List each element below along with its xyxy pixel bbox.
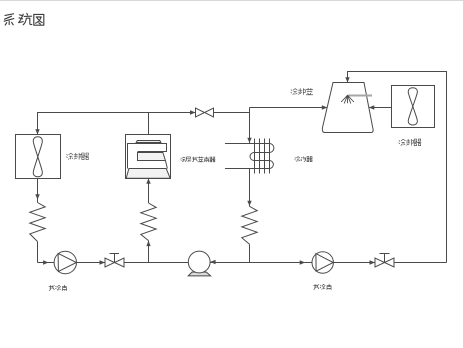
cooling tower: [322, 83, 373, 133]
label-cooler-right: [399, 139, 422, 146]
evaporator right fold diagonal: [165, 161, 167, 169]
valve V2 (bottom left, with stem): [105, 254, 124, 268]
arrow into condenser top (down): [247, 138, 251, 143]
pump P1 (circle + right triangle): [54, 251, 76, 273]
wire: left expansion coil to bottom pipe: [37, 242, 39, 263]
title 系统图 (hand drawn strokes): [4, 13, 44, 25]
arrow into pump P3 (right): [300, 260, 306, 264]
label-pump-left: [49, 285, 67, 291]
condenser crossing tubes: [255, 139, 270, 174]
valve V3 (bottom right, with stem): [375, 254, 394, 268]
wire: middle expansion coil to bottom pipe: [148, 241, 150, 263]
arrow above left expansion coil: [35, 194, 39, 199]
wire: condenser feed vertical x=249.5: [249, 108, 251, 144]
arrow into valve V3 (right): [370, 260, 376, 264]
evaporator (plate coil box): [126, 135, 171, 179]
wire: top header pipe y=112.5 from left cooler drop to condenser riser: [38, 113, 250, 135]
cooler (left fan box): [16, 135, 61, 179]
arrow at pump P2 right (left): [210, 260, 216, 264]
wire: tower top feed and right return riser: [348, 72, 447, 263]
tower spray header (grey): [348, 95, 373, 97]
expansion coil E3 (condenser drain zigzag): [242, 206, 257, 244]
label-condenser: [295, 157, 313, 162]
pump P2 (circle with base): [188, 251, 210, 276]
decorative top border: [0, 0, 463, 2]
arrow into tower left wall (right): [322, 105, 328, 109]
wire: evaporator bottom leg: [148, 179, 150, 204]
wire: left cooler down leg to expansion coil: [37, 179, 39, 203]
arrow into valve V2: [100, 260, 106, 264]
wire: header to cooling tower y=107.5: [250, 107, 328, 109]
arrow into pump P1: [43, 260, 49, 264]
condenser serpentine coil: [225, 144, 274, 169]
wire: evaporator feed drop at x=148.5: [148, 113, 150, 142]
arrow below middle expansion coil (up): [146, 241, 150, 246]
arrow into evaporator bottom (up): [146, 178, 150, 183]
cooler (right fan box): [392, 86, 435, 128]
label-tower: [291, 88, 313, 95]
pump P3 (circle + right triangle): [312, 252, 333, 273]
arrow into left cooler top: [35, 129, 39, 134]
wire: bottom main pipe y=262.5: [38, 262, 447, 264]
arrow above condenser expansion coil (down): [247, 201, 251, 206]
label-evaporator: [181, 157, 216, 162]
evaporator band 1: [128, 144, 167, 169]
tower spray nozzle: [341, 95, 354, 103]
expansion coil E2 (middle zigzag): [141, 203, 156, 241]
arrow into valve V1 (right): [190, 110, 196, 114]
flow arrows: [35, 77, 375, 265]
wire: condenser drain leg: [249, 169, 251, 207]
evaporator bottom tray: [126, 169, 170, 179]
wire: right cooler to cooling tower y=107.5: [369, 107, 392, 109]
expansion coil E1 (left zigzag): [30, 203, 45, 242]
label-pump-right: [313, 284, 331, 290]
arrow into tower right wall (left): [369, 105, 375, 109]
evaporator band 2: [138, 153, 166, 161]
wire: condenser expansion coil to bottom pipe: [249, 244, 251, 262]
arrow into tower top (down): [345, 77, 349, 82]
evaporator top plate: [136, 141, 161, 143]
valve V1 (top, bowtie): [196, 108, 214, 117]
label-cooler-left: [66, 153, 89, 160]
